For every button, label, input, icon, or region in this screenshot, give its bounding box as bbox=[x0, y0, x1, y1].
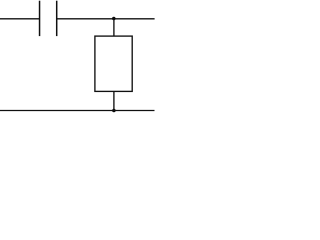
wire resistor bottom to node B bbox=[113, 91, 115, 110]
node A junction dot bbox=[112, 17, 116, 21]
node B junction dot bbox=[112, 109, 116, 113]
wire node A to right end bbox=[114, 18, 155, 20]
wire capacitor to node A bbox=[57, 18, 114, 20]
wire top-left to capacitor bbox=[0, 18, 40, 20]
capacitor C1 left plate bbox=[39, 1, 41, 36]
wire node A to resistor top bbox=[113, 19, 115, 36]
resistor R1 body bbox=[95, 36, 132, 91]
capacitor C1 right plate bbox=[56, 1, 58, 36]
wire bottom rail bbox=[0, 110, 155, 112]
